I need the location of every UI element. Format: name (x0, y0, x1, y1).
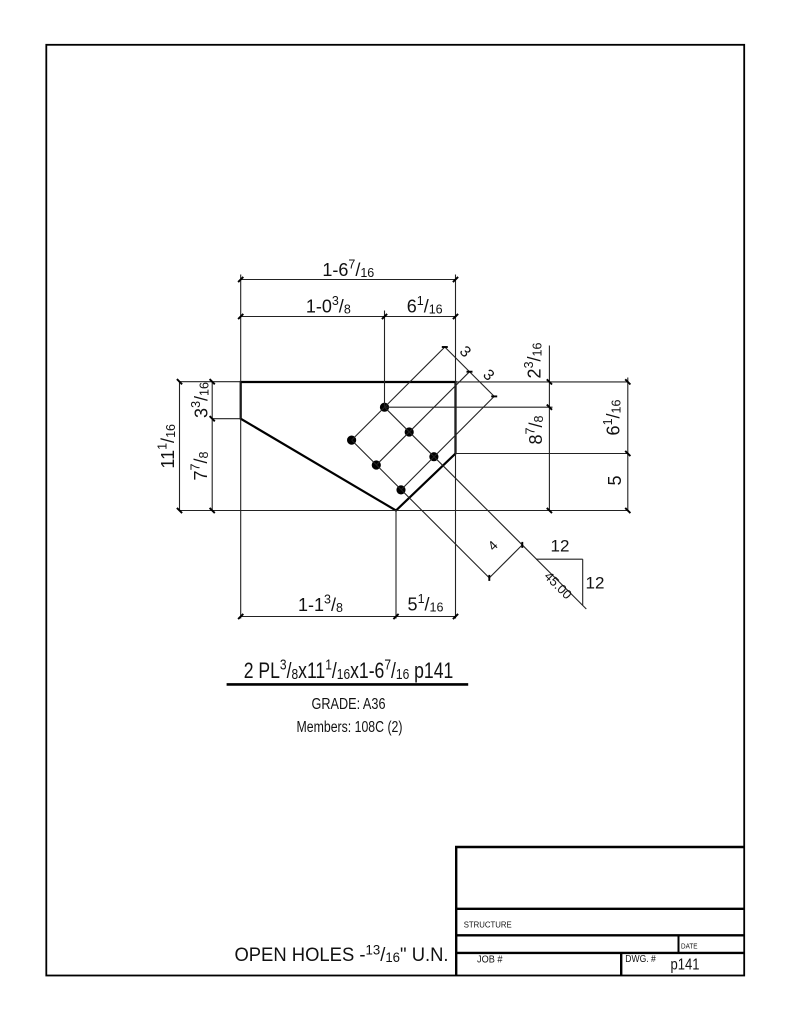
bolt hole A3 (429, 452, 438, 461)
svg-text:JOB #: JOB # (477, 954, 503, 965)
dimension line y=616.5 (1-1 3/8 , 5 1/16) (241, 616, 456, 618)
dimension line y=279.5 (1-6 7/16) (241, 279, 456, 281)
svg-text:5: 5 (605, 475, 625, 485)
open holes note (234, 942, 448, 966)
plate outline PL 3/8 (241, 382, 456, 511)
svg-text:12: 12 (551, 537, 570, 556)
title block date divider (678, 935, 680, 953)
dimension chain line x=212.2 (211, 382, 213, 511)
extension line x=240.7 (240, 275, 242, 619)
title block outline (455, 847, 744, 976)
svg-text:DWG. #: DWG. # (625, 954, 656, 965)
extension line y=453.5 plate corner (456, 453, 628, 455)
dimension line y=316.5 (1-0 3/8 , 6 1/16) (241, 316, 456, 318)
bolt hole B3 (396, 485, 405, 494)
svg-text:p141: p141 (671, 956, 700, 973)
bolt hole A2 (405, 427, 414, 436)
gauge line row A to 45.00 (385, 407, 587, 609)
dimension line x=179.5 (11 1/16) (179, 382, 181, 511)
svg-text:Members: 108C (2): Members: 108C (2) (297, 719, 403, 736)
column line C3 (401, 396, 494, 490)
tick marks diagonal dim 4 (489, 542, 522, 581)
dimension chain line x=549.4 (548, 346, 550, 511)
extension line x=384.5 bolt A1 (384, 311, 386, 408)
tick marks vertical dims (177, 379, 631, 513)
slope triangle vertical leg (582, 559, 584, 605)
svg-text:OPEN HOLES -13/16" U.N.: OPEN HOLES -13/16" U.N. (234, 942, 448, 966)
extension line x=455.5 (455, 275, 457, 619)
bolt hole A1 (380, 403, 389, 412)
label underline (227, 683, 469, 686)
bolt hole B1 (347, 436, 356, 445)
extension line y=407.2 from A1 (385, 406, 553, 408)
gauge line row B (352, 440, 490, 578)
svg-text:DATE: DATE (681, 942, 698, 951)
extension line y=381.7 left (180, 381, 241, 383)
plate label 2 PL3/8x111/16x1-67/16 p141 (244, 656, 454, 683)
svg-text:STRUCTURE: STRUCTURE (464, 920, 512, 930)
extension line x=396 bottom vertex (395, 511, 397, 619)
slope triangle horizontal leg (536, 558, 583, 560)
column line C1 (352, 347, 445, 440)
dimension chain line x=627.8 (627, 378, 629, 511)
extension line y=418.7 kink (212, 418, 241, 420)
dimension line 4 diagonal (489, 545, 522, 578)
column line C2 (376, 372, 469, 465)
dimension line 3,3 diagonal (445, 347, 494, 396)
tick marks horizontal dims (238, 277, 458, 619)
svg-text:GRADE: A36: GRADE: A36 (312, 696, 386, 713)
extension line y=510.5 long (180, 510, 628, 512)
extension line y=381.9 right (456, 381, 628, 383)
bolt hole B2 (372, 460, 381, 469)
tick marks diagonal dim 3,3 (442, 347, 497, 396)
svg-text:12: 12 (586, 574, 605, 593)
title block dwg divider (620, 953, 622, 976)
